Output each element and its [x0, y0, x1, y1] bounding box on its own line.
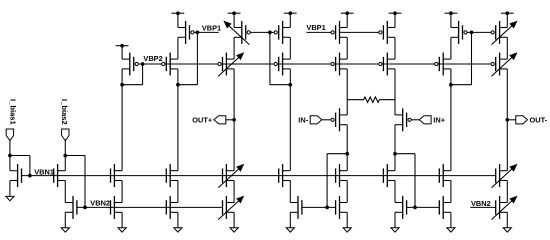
nmos M32 (tail mirror left) [290, 196, 302, 219]
wire VBP1 stub [194, 31, 219, 33]
label OUT+ [192, 116, 213, 125]
label I_bias2 [60, 99, 69, 125]
wire bias diode 1 drain up [9, 156, 11, 171]
wire I_bias1 right [10, 155, 30, 157]
power rail tick VDD (VBP2 cell) [116, 44, 129, 48]
nmos M25 [383, 164, 395, 187]
port I_bias1 [6, 129, 13, 141]
node mirror C drain [449, 83, 453, 87]
node VBN1 gate junction [28, 174, 32, 178]
wire column OUT+ rail [233, 13, 235, 228]
svg-text:OUT-: OUT- [530, 116, 548, 125]
wire mirror B diode bottom [270, 84, 290, 86]
pmos M9 [162, 53, 178, 76]
power rail tick VDD (mirror B cell) [284, 11, 297, 15]
nmos M22 (variable, arrow NE) [218, 164, 244, 188]
port I_bias2 [62, 129, 69, 141]
node I_bias1 [8, 154, 12, 158]
wire VBP2 diode down [142, 64, 144, 85]
label OUT- [530, 116, 548, 125]
wire VBP1 row: M2 gate to M3 gate [250, 31, 274, 33]
label IN- [298, 115, 308, 124]
wire column VBP1 cell [177, 13, 179, 228]
nmos M26 [439, 164, 451, 187]
pmos M17 (input IN+) [395, 108, 411, 131]
wire VBP2 diode bottom [122, 84, 143, 86]
ground column VBP2 cell [118, 228, 126, 232]
wire OUT+ to rail [226, 119, 234, 121]
wire tail mirror right gates [407, 206, 440, 208]
ground column OUT+ rail [230, 228, 238, 232]
label VBP2 [143, 54, 162, 63]
power rail tick VDD (cascode A cell) [228, 11, 241, 15]
svg-text:VBP2: VBP2 [143, 54, 162, 63]
node mirror B drain [288, 83, 292, 87]
nmos M23 [279, 164, 291, 187]
wire IN- tail left [327, 153, 347, 155]
power rail tick VDD (IN- branch cell) [341, 11, 354, 15]
wire column IN+ branch [394, 13, 396, 228]
wire column mirror C [450, 13, 452, 228]
wire column mirror B [289, 13, 291, 228]
node I_bias2 [63, 154, 67, 158]
svg-text:OUT+: OUT+ [192, 116, 213, 125]
svg-text:IN+: IN+ [433, 115, 445, 124]
wire tail mirror left gates [302, 206, 336, 208]
wire VBP1 row: M6 gate to M7 gate [467, 31, 491, 33]
node VBP1 drain [176, 83, 180, 87]
svg-text:VBN2: VBN2 [90, 199, 110, 208]
wire M6 diode down [471, 32, 473, 84]
wire IN- tail down [326, 154, 328, 208]
nmos M29 [111, 196, 123, 219]
label VBN2 (right) [471, 199, 491, 208]
wire I_bias1 port down [9, 141, 11, 156]
wire VBP2 rail [138, 63, 491, 65]
ground column OUT- rail [503, 228, 511, 232]
wire OUT- rail to port [507, 119, 516, 121]
wire IN+ gate to port [411, 119, 419, 121]
nmos M18 (bias diode 1) [10, 164, 22, 187]
port IN- [310, 116, 322, 124]
svg-text:VBP1: VBP1 [306, 23, 325, 32]
node M2-M3 gate junction [268, 31, 272, 35]
node M6 gate junction [470, 31, 474, 35]
wire VBP1 right stub [306, 31, 331, 33]
nmos M20 [111, 164, 123, 187]
ground column mirror B [286, 228, 294, 232]
pmos M16 (input IN-) [331, 108, 347, 131]
wire M2-M3 gate node down [269, 32, 271, 84]
wire VBN1 rail [22, 175, 496, 177]
pmos M4 [331, 21, 347, 44]
label I_bias1 [9, 99, 18, 126]
wire IN- port to gate [322, 119, 331, 121]
wire VBP1 row: M4 channel to M5 gate [340, 31, 379, 33]
ground bias 1 [6, 196, 14, 200]
ground column IN- branch [343, 228, 351, 232]
pmos M3 [274, 21, 290, 44]
label VBN2 (left) [90, 199, 110, 208]
node tail mirror right junction [413, 206, 417, 210]
wire column IN- branch [346, 13, 348, 228]
pmos M8 (VBP2 diode) [122, 53, 138, 76]
svg-text:I_bias1: I_bias1 [9, 99, 18, 126]
ground VBN2 diode [61, 228, 69, 232]
svg-text:VBN2: VBN2 [471, 199, 491, 208]
svg-text:IN-: IN- [298, 115, 308, 124]
nmos M36 (variable, arrow NE) [492, 196, 518, 220]
port OUT- [516, 116, 528, 124]
wire IN+ tail down [414, 154, 416, 208]
node tail mirror left junction [325, 206, 329, 210]
port IN+ [419, 116, 431, 124]
wire VBN2 rail left [77, 206, 223, 208]
pmos M1 (VBP1 diode) [178, 21, 194, 44]
wire VBN2 diode source down [64, 212, 66, 227]
wire I_bias2 down to VBN2 [84, 156, 86, 208]
resistor R1 [347, 97, 395, 102]
nmos M34 (tail mirror right) [395, 196, 407, 219]
power rail tick VDD (mirror C cell) [445, 11, 458, 15]
power rail tick VDD (VBP1 cell) [172, 11, 185, 15]
svg-text:I_bias2: I_bias2 [60, 99, 69, 125]
wire column VBP2 cell [121, 46, 123, 228]
label VBP1 (right) [306, 23, 325, 32]
wire I_bias2 port down [64, 141, 66, 156]
ground column IN+ branch [391, 228, 399, 232]
pmos M14 [435, 53, 451, 76]
pmos M15 (variable, arrow NE) [491, 52, 517, 76]
wire VBN1 mirror to VBN2 diode [64, 181, 66, 203]
nmos M30 [166, 196, 178, 219]
wire I_bias1 down to VBN1 [29, 156, 31, 176]
pmos M12 [331, 53, 347, 76]
pmos M13 [379, 53, 395, 76]
node VBN2 gate junction [83, 206, 87, 210]
nmos M21 [166, 164, 178, 187]
pmos M6 (right diode) [451, 21, 467, 44]
wire bias diode 1 source down [9, 181, 11, 197]
node OUT- [505, 118, 509, 122]
label VBP1 (left) [202, 23, 221, 32]
wire M6 diode bottom [451, 84, 472, 86]
power rail tick VDD (cascode D cell) [501, 11, 514, 15]
nmos M24 [336, 164, 348, 187]
ground column VBP1 cell [174, 228, 182, 232]
nmos M33 [336, 196, 348, 219]
pmos M2 (variable, arrow NW) [223, 21, 250, 45]
ground column mirror C [447, 228, 455, 232]
nmos M31 (variable, arrow NE) [218, 196, 244, 220]
nmos M19 (VBN1 mirror) [54, 164, 66, 187]
node OUT+ [232, 118, 236, 122]
node VBP2 gate junction [141, 62, 145, 66]
label IN+ [433, 115, 445, 124]
nmos M27 (variable, arrow NE) [492, 164, 518, 188]
wire I_bias2 right [65, 155, 85, 157]
pmos M10 (variable, arrow NE) [218, 52, 244, 76]
wire VBN2 right stub [470, 206, 495, 208]
label VBN1 [34, 168, 54, 177]
wire IN+ tail right [395, 153, 415, 155]
wire VBP1 diode bottom [178, 84, 198, 86]
svg-text:VBP1: VBP1 [202, 23, 221, 32]
power rail tick VDD (IN+ branch cell) [389, 11, 402, 15]
node VBP1 gate junction [196, 31, 200, 35]
node VBP2 drain [120, 83, 124, 87]
wire column OUT- rail [506, 13, 508, 228]
pmos M11 [274, 53, 290, 76]
pmos M5 [379, 21, 395, 44]
nmos M35 [439, 196, 451, 219]
node IN- tail [345, 152, 349, 156]
pmos M7 (variable, arrow NE) [491, 21, 517, 45]
wire VBN1 mirror drain up [64, 156, 66, 171]
port OUT+ [214, 116, 226, 124]
wire VBP1 diode: gate node down [196, 32, 198, 84]
nmos M28 (VBN2 diode) [65, 196, 77, 219]
node IN+ tail [393, 152, 397, 156]
